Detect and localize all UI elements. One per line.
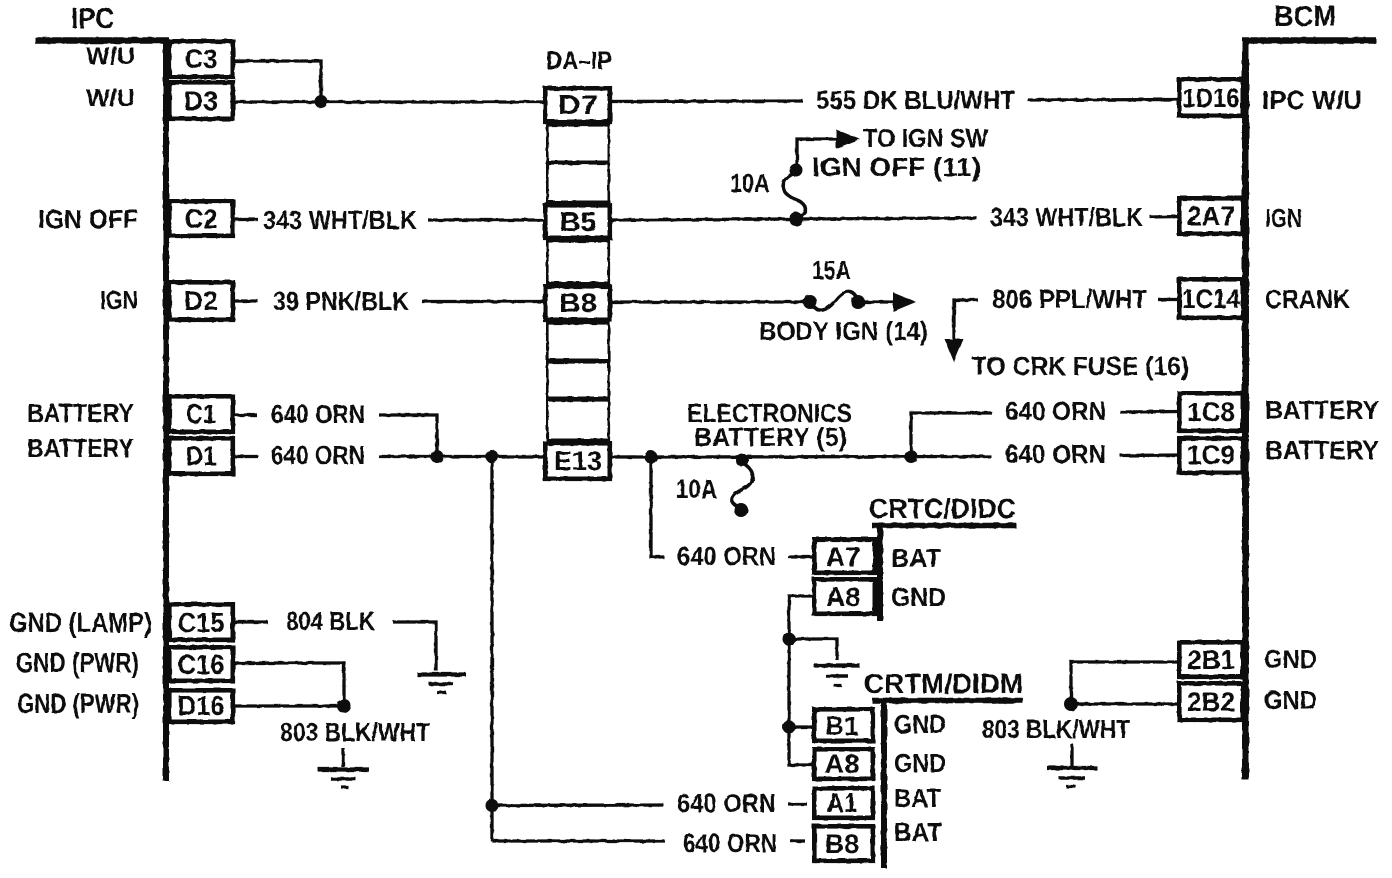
- svg-text:A8: A8: [825, 749, 860, 779]
- fuse 10A IGN OFF squiggle: [783, 173, 805, 217]
- junction node right of E13: [645, 451, 658, 464]
- connector pin box C15: [169, 604, 233, 640]
- wire 2B2 to node: [1071, 702, 1181, 705]
- wire stub right of C1: [233, 413, 257, 416]
- DA-IP empty cell 6: [547, 400, 609, 440]
- svg-text:640 ORN: 640 ORN: [683, 828, 777, 858]
- junction node C1/D1: [431, 450, 444, 463]
- DA-IP pin box B8: [545, 286, 610, 320]
- svg-text:1D16: 1D16: [1183, 83, 1240, 113]
- connector pin box D2: [169, 282, 233, 320]
- battery feed vertical run: [490, 456, 493, 841]
- svg-text:GND (PWR): GND (PWR): [16, 647, 139, 678]
- svg-text:343 WHT/BLK: 343 WHT/BLK: [990, 202, 1143, 232]
- svg-text:D3: D3: [184, 86, 218, 116]
- wire stub into 2A7: [1150, 215, 1181, 219]
- svg-text:640 ORN: 640 ORN: [677, 788, 776, 818]
- wire feed to A1: [492, 803, 664, 807]
- wire D1 to E13: [379, 455, 547, 458]
- svg-text:39 PNK/BLK: 39 PNK/BLK: [273, 286, 409, 316]
- wire 2B1 loop: [1071, 662, 1181, 704]
- DA-IP empty cell 1: [547, 125, 609, 162]
- wire B5 to 2A7: [608, 218, 977, 220]
- fuse upper node: [790, 164, 803, 177]
- svg-text:555 DK BLU/WHT: 555 DK BLU/WHT: [816, 85, 1015, 115]
- DA-IP pin box D7: [545, 88, 610, 122]
- BCM pin box 1D16: [1179, 79, 1243, 116]
- svg-text:C2: C2: [185, 204, 218, 234]
- CRTM pin box A8: [814, 749, 873, 779]
- wire fuse to IGN SW arrow: [797, 139, 838, 168]
- wire fuse to arrow: [862, 300, 895, 303]
- junction node to lower feed: [486, 450, 499, 463]
- svg-text:15A: 15A: [812, 255, 851, 285]
- connector pin box D3: [169, 82, 233, 119]
- svg-text:640 ORN: 640 ORN: [271, 440, 365, 470]
- ground symbol (D16): [341, 748, 344, 767]
- svg-text:IPC: IPC: [71, 3, 114, 35]
- wire stub right of D2: [233, 299, 258, 302]
- svg-text:2B2: 2B2: [1187, 687, 1235, 717]
- wire stub into 1C14: [1158, 298, 1181, 301]
- svg-text:GND (PWR): GND (PWR): [17, 688, 139, 719]
- svg-text:BATTERY (5): BATTERY (5): [694, 422, 847, 452]
- svg-text:GND: GND: [891, 582, 946, 612]
- svg-text:B8: B8: [559, 288, 597, 318]
- svg-text:BAT: BAT: [891, 543, 941, 573]
- svg-text:GND: GND: [1264, 644, 1317, 674]
- svg-text:B5: B5: [560, 207, 597, 237]
- fuse node electronics battery: [736, 454, 749, 467]
- svg-text:B1: B1: [826, 711, 859, 741]
- CRTM pin box B1: [814, 709, 873, 741]
- wire C3 jumper to D3 node: [233, 61, 321, 100]
- DA-IP empty cell 5: [547, 362, 609, 398]
- connector pin box C3: [169, 41, 233, 77]
- junction node ground run upper: [783, 633, 796, 646]
- svg-text:IPC W/U: IPC W/U: [1262, 85, 1362, 115]
- svg-text:GND: GND: [894, 709, 946, 739]
- svg-text:803 BLK/WHT: 803 BLK/WHT: [982, 714, 1130, 744]
- crank wire hook stub: [954, 300, 978, 341]
- wire feed to B8: [492, 839, 665, 842]
- svg-text:10A: 10A: [676, 474, 717, 504]
- svg-text:C15: C15: [178, 607, 225, 638]
- wire stub right of D1: [233, 455, 258, 458]
- wire stub right of C15: [233, 620, 268, 623]
- BCM vertical bus: [1242, 38, 1249, 780]
- svg-text:DA–IP: DA–IP: [546, 47, 612, 75]
- svg-text:GND: GND: [1264, 685, 1317, 715]
- svg-text:2A7: 2A7: [1187, 201, 1235, 231]
- svg-text:B8: B8: [825, 829, 859, 859]
- ground symbol (C15): [417, 672, 466, 676]
- ground symbol (BCM): [1070, 744, 1073, 766]
- wire C16 loop: [233, 663, 344, 706]
- fuse lower node: [734, 503, 748, 517]
- CRTM pin box A1: [814, 788, 873, 818]
- connector pin box D16: [169, 690, 233, 722]
- svg-text:D1: D1: [186, 441, 217, 471]
- svg-text:D7: D7: [558, 90, 598, 120]
- DA-IP empty cell 3: [547, 241, 609, 282]
- connector pin box C1: [169, 396, 233, 432]
- fuse 15A right node: [851, 295, 865, 309]
- DA-IP pin box E13: [545, 443, 610, 479]
- svg-text:E13: E13: [554, 446, 602, 476]
- svg-text:TO IGN SW: TO IGN SW: [863, 123, 988, 153]
- IPC vertical bus: [163, 38, 169, 781]
- junction node 1C8 branch: [905, 450, 918, 463]
- connector pin box C16: [169, 647, 233, 681]
- svg-text:CRTM/DIDM: CRTM/DIDM: [864, 668, 1023, 699]
- svg-text:640 ORN: 640 ORN: [1005, 439, 1106, 469]
- svg-text:806 PPL/WHT: 806 PPL/WHT: [992, 284, 1147, 314]
- wire A8 to ground run: [789, 596, 816, 765]
- svg-text:C16: C16: [178, 649, 225, 680]
- wire branch up to 1C8: [911, 413, 992, 456]
- svg-text:A7: A7: [826, 542, 861, 572]
- BCM pin box 2B2: [1179, 683, 1243, 720]
- svg-text:GND: GND: [894, 748, 946, 778]
- wire C1 drop to battery node: [379, 415, 437, 456]
- junction node on W/U wire: [315, 95, 328, 108]
- wire D3 to D7: [233, 100, 547, 103]
- svg-text:TO CRK FUSE (16): TO CRK FUSE (16): [972, 351, 1189, 381]
- wire C15 to ground: [393, 622, 436, 671]
- junction node battery feed to A1: [486, 799, 499, 812]
- svg-text:640 ORN: 640 ORN: [271, 399, 365, 429]
- svg-text:W/U: W/U: [86, 85, 135, 112]
- svg-text:640 ORN: 640 ORN: [1005, 396, 1106, 426]
- junction node 803 BLK/WHT: [1064, 697, 1078, 711]
- fuse 10A electronics squiggle: [732, 463, 753, 507]
- wire E13 to BCM battery row: [608, 455, 991, 459]
- wire node to B1: [789, 725, 816, 728]
- svg-text:GND (LAMP): GND (LAMP): [9, 607, 152, 638]
- wire into 1D16: [1028, 98, 1181, 102]
- CRTC pin box A8: [814, 579, 875, 614]
- svg-text:CRTC/DIDC: CRTC/DIDC: [869, 493, 1016, 524]
- svg-text:BAT: BAT: [894, 783, 941, 813]
- svg-text:W/U: W/U: [86, 43, 135, 70]
- svg-text:BATTERY: BATTERY: [1265, 395, 1379, 425]
- connector pin box C2: [169, 201, 233, 236]
- svg-text:C3: C3: [185, 44, 218, 74]
- svg-text:BATTERY: BATTERY: [27, 398, 134, 428]
- junction node ground run lower: [783, 721, 796, 734]
- wire B8 to 15A fuse: [608, 300, 812, 303]
- svg-text:CRANK: CRANK: [1265, 284, 1350, 314]
- svg-text:A8: A8: [826, 582, 861, 612]
- svg-text:BATTERY: BATTERY: [1265, 435, 1379, 465]
- wire D16 to node: [233, 704, 344, 707]
- BCM pin box 2B1: [1179, 642, 1243, 677]
- DA-IP pin box B5: [545, 205, 610, 238]
- svg-text:10A: 10A: [730, 168, 770, 198]
- IPC top bar: [35, 37, 169, 44]
- CRTC pin box A7: [814, 539, 875, 573]
- connector pin box D1: [169, 438, 233, 474]
- svg-text:IGN: IGN: [100, 285, 138, 315]
- ground stub wire: [789, 639, 837, 660]
- CRTM pin box B8: [814, 826, 873, 861]
- svg-text:BATTERY: BATTERY: [27, 433, 134, 463]
- svg-text:BAT: BAT: [894, 817, 942, 847]
- wire label to B5: [428, 218, 547, 221]
- arrowhead TO CRK FUSE: [945, 339, 964, 362]
- DA-IP empty cell 4: [547, 323, 609, 360]
- svg-text:1C14: 1C14: [1182, 284, 1240, 314]
- BCM top bar: [1242, 37, 1376, 44]
- BCM pin box 1C9: [1179, 438, 1243, 473]
- wire stub right of C2: [233, 218, 258, 221]
- fuse 15A wave: [812, 291, 857, 310]
- wire dash into A1: [788, 802, 807, 805]
- wire dash into B8: [790, 839, 805, 842]
- junction node C16/D16: [337, 699, 351, 713]
- wire D7 right segment: [608, 99, 803, 103]
- BCM pin box 2A7: [1179, 198, 1243, 234]
- CRTM connector bracket: [872, 698, 1023, 704]
- svg-text:IGN OFF: IGN OFF: [38, 204, 138, 234]
- wire stub into 1C9: [1120, 453, 1181, 457]
- svg-text:BODY IGN (14): BODY IGN (14): [759, 316, 928, 346]
- CRTC connector bracket: [872, 523, 1016, 529]
- wire label to B8: [422, 300, 547, 303]
- fuse 15A left node: [803, 295, 817, 309]
- arrowhead BODY IGN: [893, 293, 916, 312]
- svg-text:640 ORN: 640 ORN: [677, 541, 776, 571]
- svg-text:804 BLK: 804 BLK: [286, 606, 375, 636]
- svg-text:C1: C1: [186, 399, 216, 429]
- svg-text:1C9: 1C9: [1187, 440, 1235, 470]
- wire drop to CRTC A7: [651, 457, 664, 557]
- svg-text:IGN: IGN: [1265, 203, 1302, 233]
- svg-text:343 WHT/BLK: 343 WHT/BLK: [263, 205, 417, 235]
- svg-text:BCM: BCM: [1274, 1, 1336, 33]
- arrowhead TO IGN SW: [836, 130, 860, 149]
- BCM pin box 1C14: [1179, 279, 1243, 318]
- svg-text:A1: A1: [827, 788, 858, 818]
- wire stub into 1C8: [1120, 410, 1181, 414]
- svg-text:D2: D2: [184, 286, 218, 316]
- svg-text:D16: D16: [178, 690, 225, 721]
- DA-IP empty cell 2: [547, 163, 609, 202]
- wire stub into A7: [788, 555, 816, 558]
- BCM pin box 1C8: [1179, 393, 1243, 431]
- ground symbol (CRTC): [814, 663, 860, 667]
- fuse node on IGN wire: [789, 212, 803, 226]
- svg-text:803 BLK/WHT: 803 BLK/WHT: [280, 717, 430, 747]
- svg-text:2B1: 2B1: [1187, 645, 1235, 675]
- svg-text:IGN OFF (11): IGN OFF (11): [812, 152, 981, 182]
- svg-text:1C8: 1C8: [1187, 397, 1235, 427]
